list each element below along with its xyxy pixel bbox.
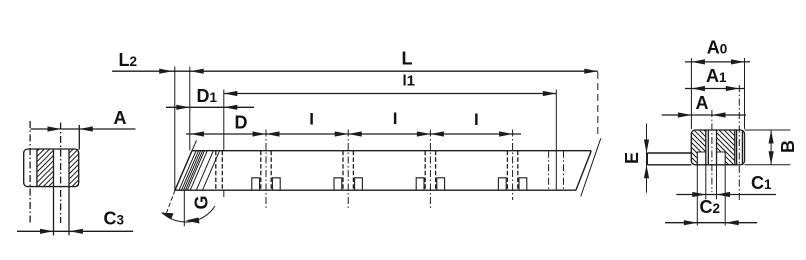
A1 left arrow xyxy=(691,86,705,91)
dimension A (left view) line xyxy=(31,128,136,130)
angle G arc arrow at vertical xyxy=(186,218,200,224)
label B (rotated) xyxy=(778,140,798,153)
I3 right arrow xyxy=(499,131,512,136)
dimension B line xyxy=(770,130,772,165)
right view wall line 4 xyxy=(734,130,736,165)
left view hatching column 1 xyxy=(0,149,96,187)
l1 right extension line xyxy=(555,90,557,191)
L2 left arrow xyxy=(159,69,173,74)
svg-text:L: L xyxy=(402,49,413,69)
I3 left arrow xyxy=(430,131,444,136)
unit 3 left tab xyxy=(416,178,424,190)
C2 left extension xyxy=(696,165,698,226)
A0 left arrow xyxy=(691,59,705,64)
unit 4 right tab xyxy=(519,178,527,190)
C2 right extension xyxy=(724,165,726,226)
left view centerline right xyxy=(60,123,62,224)
I2 left arrow xyxy=(348,131,362,136)
dimension C3 line xyxy=(17,230,133,232)
dim C3 left arrow xyxy=(40,229,54,234)
A right-view left arrow xyxy=(678,112,692,117)
left view inner wall line 2 xyxy=(53,149,55,187)
C2 right arrow xyxy=(725,220,739,225)
right view slot line b xyxy=(741,130,743,165)
right view wall line 2 xyxy=(707,130,709,165)
svg-text:I: I xyxy=(309,110,314,129)
left end slant edge xyxy=(175,151,192,191)
D1 left arrow xyxy=(176,105,190,110)
dimension l1 line xyxy=(224,93,557,95)
dimension A0 line xyxy=(685,61,750,63)
main rail bottom edge xyxy=(175,189,576,191)
B top arrow xyxy=(769,130,774,144)
C1 right extension xyxy=(716,165,718,200)
l1 right arrow xyxy=(543,91,557,96)
mounting plate top edge xyxy=(647,152,691,154)
right view notch 2 xyxy=(717,152,726,165)
right end centerline b xyxy=(563,151,565,191)
dim C3 right arrow xyxy=(69,229,83,234)
right view centerline xyxy=(711,110,713,192)
dim A right arrow xyxy=(79,126,93,131)
unit 2 right tab xyxy=(355,178,363,190)
angle G vertical reference xyxy=(183,190,185,226)
D right arrow xyxy=(253,131,267,136)
E top arrow xyxy=(644,140,649,154)
unit 2 left tab xyxy=(334,178,342,190)
right view wall line 1 xyxy=(705,130,707,165)
unit 1 centerline xyxy=(265,130,267,209)
A0 right arrow xyxy=(731,59,745,64)
L2 left extension line xyxy=(174,67,176,191)
svg-text:I: I xyxy=(393,109,398,128)
right view slot line a xyxy=(736,130,738,165)
svg-text:D: D xyxy=(235,113,248,133)
L right arrow xyxy=(584,69,598,74)
C1 left extension xyxy=(705,165,707,200)
hidden slot line b (left end) xyxy=(221,151,223,191)
D1 right extension line upper xyxy=(223,90,225,151)
dimension L2/L line xyxy=(112,70,598,72)
right view slot centerline (A1 ext) xyxy=(738,85,740,200)
unit 4 centerline xyxy=(512,130,514,201)
extension line C3 right xyxy=(68,187,70,236)
label G (rotated) xyxy=(192,195,212,209)
B bottom arrow xyxy=(769,151,774,165)
svg-text:l1: l1 xyxy=(403,72,416,89)
unit 3 right tab xyxy=(437,178,445,190)
dimension D1 line xyxy=(166,106,254,108)
B bottom extension xyxy=(745,164,791,166)
right view hatching column 2 xyxy=(670,126,797,168)
unit 3 hidden slot lines xyxy=(424,151,426,191)
right end centerline a xyxy=(548,151,550,191)
B top extension xyxy=(745,129,791,131)
left view centerline left xyxy=(29,121,31,223)
unit 4 hidden slot lines xyxy=(506,151,508,191)
unit 4 left tab xyxy=(498,178,506,190)
unit 2 hidden slot lines xyxy=(342,151,344,191)
l1 left arrow xyxy=(224,91,238,96)
E bottom arrow xyxy=(644,165,649,179)
dimension A (right view) line xyxy=(662,114,747,116)
angle G arc xyxy=(163,206,215,222)
extension line right edge xyxy=(78,125,80,150)
right view: block body xyxy=(691,130,744,165)
mounting plate bottom edge xyxy=(647,164,691,166)
A0/A1 left extension xyxy=(690,58,692,129)
left slant extension below (dashed) xyxy=(167,190,175,212)
svg-text:G: G xyxy=(192,195,212,209)
right end slant edge xyxy=(576,151,591,190)
extension line C3 left xyxy=(53,187,55,236)
svg-text:A: A xyxy=(696,93,709,113)
svg-text:A: A xyxy=(114,108,127,128)
unit 3 centerline xyxy=(429,130,431,209)
L2 right / L left arrow xyxy=(190,69,204,74)
left view inner wall line 1 xyxy=(36,149,38,187)
L right extension line xyxy=(597,72,599,137)
A0 right extension xyxy=(744,58,746,129)
right view hatching column 1 xyxy=(660,126,797,168)
label E (rotated) xyxy=(622,152,642,164)
dimension C1 line xyxy=(676,194,776,196)
I2 right arrow xyxy=(417,131,431,136)
D1 right extension line stub below xyxy=(223,190,225,197)
I1 right arrow xyxy=(335,131,349,136)
unit 1 hidden slot lines xyxy=(260,151,262,191)
right view wall line 3 xyxy=(716,130,718,165)
unit 2 centerline xyxy=(347,130,349,209)
unit 1 left tab xyxy=(252,178,260,190)
dimension D/I line xyxy=(186,133,521,135)
left end cut hatching xyxy=(179,151,196,191)
left slant extension above xyxy=(192,140,197,150)
angle G arc arrow left xyxy=(161,213,174,220)
unit 1 right tab xyxy=(272,178,280,190)
svg-text:B: B xyxy=(778,140,798,153)
I1 left arrow xyxy=(266,131,280,136)
dimension E line xyxy=(646,124,648,193)
right end outer slant line xyxy=(581,138,601,196)
right view notch 1 xyxy=(697,152,706,165)
L left extension line xyxy=(189,67,191,151)
C1 right arrow xyxy=(717,192,731,197)
left view hatching column 2 xyxy=(20,149,120,187)
C2 left arrow xyxy=(684,220,698,225)
dim A left arrow xyxy=(48,126,62,131)
dimension C2 line xyxy=(665,222,757,224)
left view inner wall line 3 xyxy=(68,149,70,187)
mounting plate left end xyxy=(646,153,648,165)
A right-view right arrow xyxy=(712,112,726,117)
main rail top edge xyxy=(192,150,591,152)
C1 left arrow xyxy=(692,192,706,197)
D left arrow xyxy=(191,131,205,136)
D1 right arrow xyxy=(224,105,238,110)
svg-text:I: I xyxy=(474,110,479,129)
hidden slot line a (left end) xyxy=(215,151,217,191)
left view: cross-section body xyxy=(24,149,79,187)
A1 right arrow xyxy=(726,86,740,91)
dimension A1 line xyxy=(685,88,745,90)
svg-text:E: E xyxy=(622,152,642,164)
